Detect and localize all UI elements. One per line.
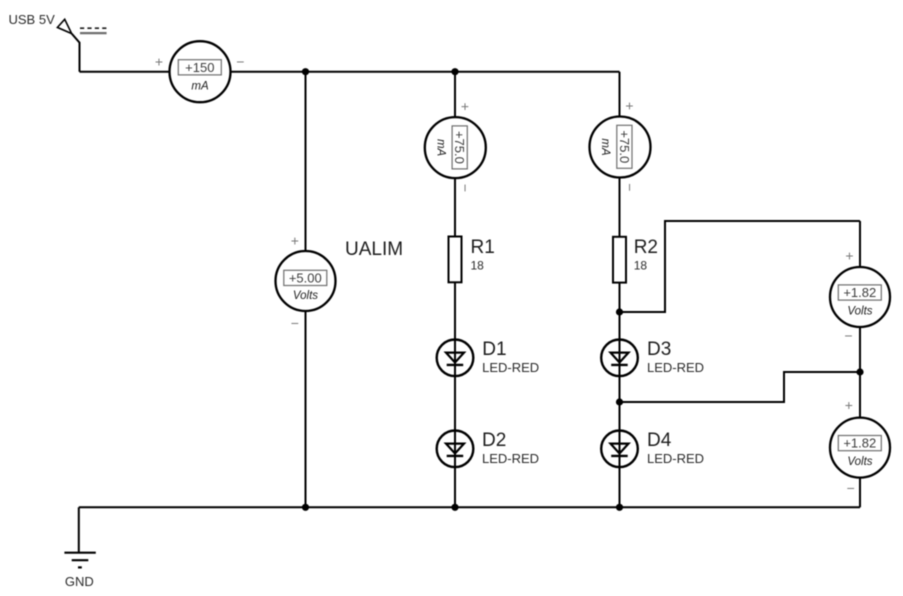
node: junction between V2 and V3 (856, 368, 863, 375)
voltmeter V3 (+1.82 Volts) (830, 397, 890, 496)
LED D3 (601, 340, 638, 377)
wire: right vertical through V2 and V3 down to bottom rail (859, 221, 861, 507)
svg-text:mA: mA (434, 139, 446, 157)
svg-text:−: − (458, 184, 474, 192)
svg-text:Volts: Volts (847, 456, 872, 468)
ammeter A2 (+75.0 mA, rotated 90) (425, 103, 486, 193)
svg-text:R1: R1 (471, 237, 495, 258)
wire: net from R2/D3 junction to voltmeter V2 plus (620, 221, 861, 312)
svg-text:D1: D1 (482, 339, 506, 360)
node: junction bottom rail / UALIM branch (302, 504, 309, 511)
svg-text:−: − (844, 328, 852, 344)
svg-text:GND: GND (65, 574, 94, 589)
symbol: DC solid gray bar (80, 32, 107, 34)
svg-text:−: − (291, 315, 299, 331)
LED D4 (601, 431, 638, 468)
svg-text:Volts: Volts (847, 306, 872, 318)
svg-text:mA: mA (599, 138, 611, 156)
svg-text:USB 5V: USB 5V (9, 12, 56, 27)
svg-text:D2: D2 (482, 430, 506, 451)
svg-text:+1.82: +1.82 (843, 436, 876, 451)
svg-text:−: − (622, 183, 638, 191)
svg-text:LED-RED: LED-RED (647, 360, 704, 375)
wire: terminal lead down from USB connector (72, 34, 80, 72)
svg-text:18: 18 (471, 259, 485, 273)
svg-text:+75.0: +75.0 (452, 131, 467, 164)
wire: bottom rail (79, 506, 860, 508)
symbol: DC dashed line (80, 27, 107, 29)
wire: branch 2 vertical (through A3, R2, D3, D4) (619, 72, 621, 508)
resistor R1 (449, 237, 462, 283)
svg-text:UALIM: UALIM (345, 239, 403, 260)
svg-text:+5.00: +5.00 (289, 271, 322, 286)
svg-text:+: + (291, 233, 299, 249)
svg-text:LED-RED: LED-RED (482, 451, 539, 466)
ammeter A1 (+150 mA) (155, 41, 245, 102)
svg-text:+1.82: +1.82 (843, 285, 876, 300)
voltmeter V1 (+5.00 Volts) (276, 233, 336, 332)
voltmeter V2 (+1.82 Volts) (830, 247, 890, 343)
node: junction top rail / UALIM branch (302, 68, 309, 75)
wire: top rail from terminal to branch 2 corner (80, 71, 620, 73)
svg-text:+: + (845, 397, 853, 413)
svg-text:+: + (622, 102, 638, 110)
wire: net from D3/D4 junction to point between V2 and V3 (620, 372, 861, 402)
svg-text:−: − (236, 54, 244, 70)
svg-text:−: − (847, 480, 855, 496)
node: junction bottom rail / branch 1 (451, 504, 458, 511)
svg-text:mA: mA (191, 81, 209, 93)
ground symbol (64, 553, 95, 568)
svg-text:+: + (155, 54, 163, 70)
svg-text:+75.0: +75.0 (617, 130, 632, 163)
wire: branch 1 vertical (through A2, R1, D1, D2) (454, 72, 456, 508)
svg-text:D4: D4 (647, 430, 672, 451)
resistor R2 (613, 237, 626, 283)
svg-text:+: + (458, 103, 474, 111)
svg-text:18: 18 (634, 259, 648, 273)
node: junction top rail / branch 1 (451, 68, 458, 75)
wire: ground drop (78, 507, 80, 552)
node: junction R2-D3 (616, 308, 623, 315)
svg-text:+: + (845, 247, 853, 263)
LED D1 (437, 340, 474, 377)
LED D2 (437, 431, 474, 468)
wire: UALIM voltmeter branch vertical (305, 72, 307, 508)
svg-text:LED-RED: LED-RED (647, 451, 704, 466)
svg-text:Volts: Volts (293, 290, 318, 302)
ammeter A3 (+75.0 mA, rotated 90) (590, 102, 651, 192)
terminal: USB 5V input terminal triangle (57, 19, 71, 33)
node: junction bottom rail / branch 2 (616, 504, 623, 511)
node: junction D3-D4 (616, 398, 623, 405)
svg-text:LED-RED: LED-RED (482, 360, 539, 375)
svg-text:R2: R2 (634, 237, 658, 258)
svg-text:+150: +150 (185, 60, 214, 75)
svg-text:D3: D3 (647, 339, 671, 360)
